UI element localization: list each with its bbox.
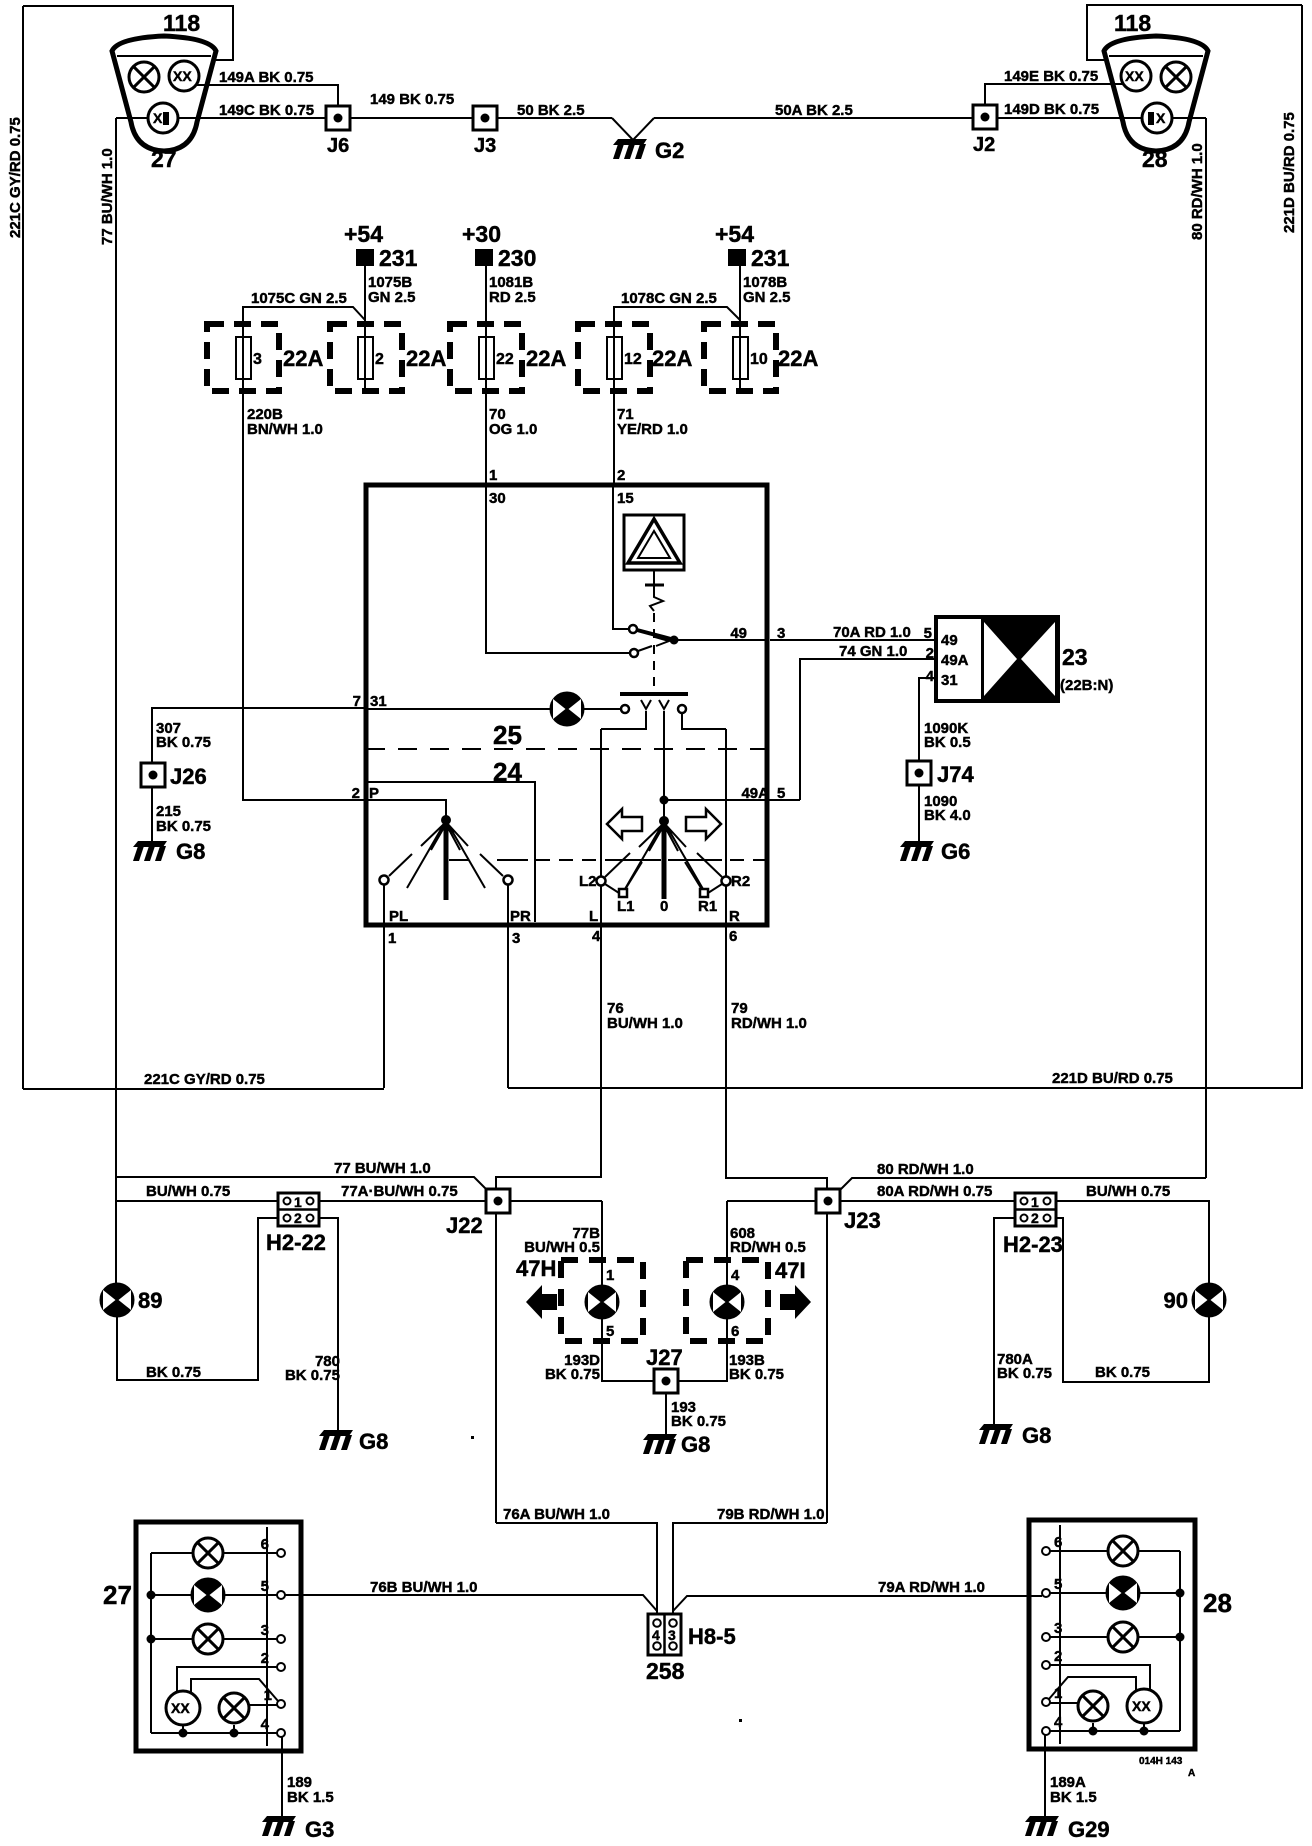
fuse 22/22A box <box>450 324 522 391</box>
arrow left 47H <box>526 1285 557 1319</box>
svg-text:2: 2 <box>375 351 384 368</box>
svg-text:149C BK 0.75: 149C BK 0.75 <box>219 102 314 119</box>
wire X lamp to pin1 comp28 <box>1050 1702 1077 1704</box>
wire 77B BU/WH 0.5 down to lamp 47H <box>601 1201 603 1286</box>
comp28 right bus <box>1179 1551 1181 1731</box>
svg-text:2: 2 <box>261 1650 269 1667</box>
lamp X in cluster 28 <box>1161 62 1191 92</box>
svg-text:2: 2 <box>926 645 934 662</box>
lamp row6 comp28 <box>1108 1536 1138 1566</box>
wire 1075C GN 2.5 tee <box>243 307 365 324</box>
comp28 bus dot row3 <box>1176 1633 1185 1642</box>
svg-text:4: 4 <box>652 1627 660 1643</box>
wire 76 BU/WH 1.0 pin4 down <box>496 925 601 1189</box>
svg-text:L1: L1 <box>617 898 635 915</box>
wire 47H pin5 to J27 <box>602 1318 654 1381</box>
svg-text:2: 2 <box>1054 1648 1062 1665</box>
svg-text:BU/WH 0.75: BU/WH 0.75 <box>1086 1183 1170 1200</box>
hazard symbol box <box>624 515 684 570</box>
wire XX bottom stub <box>182 1725 184 1733</box>
combination switch unit 25/24 box <box>366 485 767 925</box>
flasher 23 bowtie <box>981 617 1058 701</box>
svg-text:RD/WH 0.5: RD/WH 0.5 <box>730 1239 806 1256</box>
svg-text:149D BK 0.75: 149D BK 0.75 <box>1004 101 1099 118</box>
lamp 90 <box>1193 1284 1226 1317</box>
svg-text:G3: G3 <box>305 1817 334 1842</box>
svg-text:49: 49 <box>730 625 747 642</box>
svg-text:77 BU/WH 1.0: 77 BU/WH 1.0 <box>334 1160 431 1177</box>
svg-text:(22B:N): (22B:N) <box>1060 677 1113 694</box>
wire pin2/15 internal <box>613 485 628 629</box>
arrow right 47I <box>780 1285 811 1319</box>
junction J3 <box>473 106 497 130</box>
wire comp28 pin4 to G29 <box>1044 1735 1046 1817</box>
pin 2 circle comp27 <box>277 1663 285 1671</box>
comp28 inner pin rail <box>1059 1525 1061 1744</box>
wire BU/WH 0.75 to H2-22 <box>116 1200 278 1202</box>
svg-text:221D BU/RD 0.75: 221D BU/RD 0.75 <box>1281 112 1298 233</box>
svg-text:89: 89 <box>138 1288 162 1313</box>
pin 1 circle comp27 <box>277 1700 285 1708</box>
svg-text:80 RD/WH 1.0: 80 RD/WH 1.0 <box>877 1161 974 1178</box>
comp28 row6 wires <box>1050 1550 1180 1552</box>
deck contact fork 2 <box>641 700 651 709</box>
wire 221D BU/RD 0.75 bottom horizontal <box>508 1087 1302 1089</box>
svg-text:RD/WH 1.0: RD/WH 1.0 <box>731 1015 807 1032</box>
svg-text:80 RD/WH 1.0: 80 RD/WH 1.0 <box>1189 143 1206 240</box>
svg-text:221D BU/RD 0.75: 221D BU/RD 0.75 <box>1052 1070 1173 1087</box>
PL throw line <box>389 854 412 876</box>
comp28 bus dot row5 <box>1176 1589 1185 1598</box>
pin 2 circle comp28 <box>1042 1661 1050 1669</box>
svg-text:H8-5: H8-5 <box>688 1624 736 1649</box>
svg-text:258: 258 <box>646 1658 685 1684</box>
turn deck left rail <box>600 729 602 925</box>
svg-text:70A RD 1.0: 70A RD 1.0 <box>833 624 911 641</box>
instrument cluster 118 right outline <box>1104 36 1208 151</box>
svg-text:XX: XX <box>1125 68 1144 84</box>
comp27 bus dot row3 <box>147 1635 156 1644</box>
svg-text:BK 0.75: BK 0.75 <box>156 818 211 835</box>
deck contact circle 4 <box>678 705 686 713</box>
comp27 inner pin rail <box>266 1527 268 1746</box>
lamp row3 comp27 <box>193 1624 223 1654</box>
pin 4 circle comp27 <box>277 1729 285 1737</box>
svg-text:BK 0.75: BK 0.75 <box>997 1365 1052 1382</box>
svg-text:1: 1 <box>294 1194 302 1210</box>
svg-text:3: 3 <box>261 1622 269 1639</box>
contact R1 <box>700 889 708 897</box>
hazard contact upper <box>629 625 637 633</box>
wire 49 internal to east edge <box>674 639 767 641</box>
svg-text:2: 2 <box>1031 1210 1039 1226</box>
P wiper pivot dot <box>441 815 451 825</box>
wire comp27 pin4 to G3 <box>281 1737 283 1817</box>
ground G29 <box>1025 1816 1059 1836</box>
lamp 47H dashed box <box>561 1260 643 1341</box>
wire 1081B RD 2.5 <box>485 266 487 324</box>
contact L2 <box>597 877 606 886</box>
svg-text:31: 31 <box>370 693 387 710</box>
wire 76A BU/WH 1.0 to H8-5 <box>496 1523 657 1616</box>
svg-text:74 GN 1.0: 74 GN 1.0 <box>839 643 907 660</box>
svg-text:30: 30 <box>489 490 506 507</box>
ground G8 under J27 <box>643 1434 677 1454</box>
pin 4 circle comp28 <box>1042 1727 1050 1735</box>
svg-text:H2-23: H2-23 <box>1003 1232 1063 1257</box>
svg-text:10: 10 <box>750 351 768 368</box>
svg-text:J26: J26 <box>170 764 207 789</box>
speck bottom <box>739 1719 742 1722</box>
hazard arm stub from lower contact <box>638 646 652 651</box>
wire lamp 90 bottom loop to H2-23 pin2 <box>1056 1218 1209 1382</box>
svg-text:231: 231 <box>751 245 790 271</box>
svg-text:BK 1.5: BK 1.5 <box>287 1789 334 1806</box>
svg-text:+30: +30 <box>462 221 501 247</box>
wire 1078C GN 2.5 tee <box>614 307 740 324</box>
lamp IX in cluster 28 <box>1142 103 1172 133</box>
fuse 12/22A box <box>578 324 650 391</box>
junction J26 <box>141 763 165 787</box>
hazard switch dashed shaft <box>653 613 655 691</box>
wire 149E BK 0.75 <box>985 84 1123 105</box>
svg-text:2: 2 <box>352 785 360 802</box>
fuse 3/22A box <box>207 324 279 391</box>
svg-text:5: 5 <box>606 1323 614 1340</box>
wire 80 RD/WH 1.0 vertical <box>1205 118 1207 1178</box>
lamp 47I <box>711 1286 744 1319</box>
svg-text:OG 1.0: OG 1.0 <box>489 421 537 438</box>
R2 throw line <box>697 853 722 877</box>
wire G2 dip <box>612 118 654 140</box>
turn wiper feed <box>663 800 665 820</box>
dot XX bottom comp28 <box>1140 1727 1149 1736</box>
svg-text:149A BK 0.75: 149A BK 0.75 <box>219 69 314 86</box>
dot X bottom comp28 <box>1089 1727 1098 1736</box>
hazard arm arrowhead <box>655 637 669 646</box>
pin 5 circle comp27 <box>277 1591 285 1599</box>
mech link dashed right <box>730 859 766 861</box>
fuse 10/22A box <box>704 324 776 391</box>
wire 71 YE/RD 1.0 fuse12 to pin 2 <box>613 391 615 485</box>
comp28 row3 wires <box>1050 1636 1180 1638</box>
pin 3 circle comp27 <box>277 1635 285 1643</box>
svg-text:2: 2 <box>617 467 625 484</box>
svg-text:50 BK 2.5: 50 BK 2.5 <box>517 102 585 119</box>
L2 throw line <box>605 853 630 877</box>
svg-text:79B RD/WH 1.0: 79B RD/WH 1.0 <box>717 1506 825 1523</box>
comp27 left bus <box>150 1553 152 1733</box>
svg-text:BK 0.75: BK 0.75 <box>671 1413 726 1430</box>
wire 77A BU/WH 0.75 H2-22 to J22 <box>319 1200 486 1202</box>
hollow arrow left <box>607 809 642 839</box>
flasher unit 23 box <box>936 617 1058 701</box>
wire pin2 to XX lamp comp28 <box>1050 1665 1150 1690</box>
wire fork2 to L rail <box>601 711 646 729</box>
wire 77 BU/WH 1.0 vertical <box>115 118 117 1283</box>
svg-text:77A·BU/WH 0.75: 77A·BU/WH 0.75 <box>341 1183 458 1200</box>
svg-text:4: 4 <box>731 1267 740 1284</box>
svg-text:76A BU/WH 1.0: 76A BU/WH 1.0 <box>503 1506 610 1523</box>
svg-text:25: 25 <box>493 720 522 750</box>
wire 79B RD/WH 1.0 to H8-5 <box>673 1523 827 1616</box>
divider dashed 25/24 <box>366 748 767 750</box>
wire lamp 89 bottom loop to H2-22 pin2 <box>117 1218 278 1380</box>
svg-text:22: 22 <box>496 351 514 368</box>
contact L1 <box>619 889 627 897</box>
junction J27 <box>654 1369 678 1393</box>
pin 5 circle comp28 <box>1042 1589 1050 1597</box>
svg-text:J2: J2 <box>973 134 995 156</box>
wire 149D BK 0.75 <box>997 117 1142 119</box>
wire XX bottom stub comp28 <box>1143 1723 1145 1731</box>
wire J74 to G6 <box>918 785 920 843</box>
svg-text:R1: R1 <box>698 898 717 915</box>
svg-text:A: A <box>1188 1768 1195 1779</box>
lamp X comp27 <box>219 1693 249 1723</box>
svg-text:BK 0.75: BK 0.75 <box>156 734 211 751</box>
svg-text:90: 90 <box>1164 1288 1188 1313</box>
turn wiper stem <box>662 821 667 899</box>
wire 77 BU/WH 1.0 to J22 <box>116 1177 486 1189</box>
link L2-L1 <box>605 884 619 893</box>
PR throw line <box>480 854 503 876</box>
svg-text:22A: 22A <box>526 346 566 371</box>
connector H8-5 <box>648 1614 681 1655</box>
wire 49A internal to east edge <box>664 799 767 801</box>
wire top-right hook to cluster 28 <box>1087 5 1302 60</box>
pin 6 circle comp28 <box>1042 1547 1050 1555</box>
hazard switch stem <box>653 570 655 585</box>
svg-text:1: 1 <box>606 1267 614 1284</box>
lamp 47I dashed box <box>686 1260 768 1341</box>
hazard arm pivot dot <box>670 636 679 645</box>
wire 70 OG 1.0 fuse22 to pin 1 <box>485 391 487 485</box>
contact R2 <box>722 877 731 886</box>
P wiper stem <box>444 820 449 900</box>
svg-text:L2: L2 <box>579 873 597 890</box>
svg-text:3: 3 <box>1054 1620 1062 1637</box>
svg-text:4: 4 <box>261 1716 270 1733</box>
hazard contact lower <box>630 649 638 657</box>
wire J27 to G8 <box>665 1393 667 1436</box>
svg-text:G8: G8 <box>359 1429 388 1454</box>
svg-text:6: 6 <box>261 1536 269 1553</box>
wire pin1/30 internal <box>486 485 630 653</box>
wire J23 west to 608 riser <box>727 1200 816 1202</box>
wire 76A BU/WH 1.0 J22 down <box>495 1213 497 1523</box>
svg-text:6: 6 <box>731 1323 739 1340</box>
svg-text:49A: 49A <box>941 652 969 669</box>
ground G6 <box>900 841 934 861</box>
wire 149 BK 0.75 <box>350 117 473 119</box>
svg-text:22A: 22A <box>652 346 692 371</box>
ground G2 <box>613 139 647 159</box>
pin 1 circle comp28 <box>1042 1698 1050 1706</box>
wire pin1 hook comp28 <box>1049 1677 1136 1699</box>
svg-text:R2: R2 <box>731 873 750 890</box>
svg-text:231: 231 <box>379 245 418 271</box>
wire 1078B GN 2.5 <box>739 266 741 324</box>
svg-text:47I: 47I <box>775 1258 806 1283</box>
svg-text:J74: J74 <box>937 762 974 787</box>
pin 3 circle comp28 <box>1042 1633 1050 1641</box>
wire BU/WH 0.75 H2-23 to lamp 90 <box>1056 1201 1209 1284</box>
svg-text:H2-22: H2-22 <box>266 1230 326 1255</box>
ground G3 <box>262 1816 296 1836</box>
svg-text:3: 3 <box>512 930 520 947</box>
svg-text:BK 0.75: BK 0.75 <box>285 1367 340 1384</box>
wire J26 to G8 <box>151 787 153 843</box>
svg-text:221C GY/RD 0.75: 221C GY/RD 0.75 <box>7 117 24 238</box>
svg-text:BK 0.5: BK 0.5 <box>924 734 971 751</box>
svg-text:6: 6 <box>1054 1534 1062 1551</box>
wire pin1 hook comp27 <box>191 1679 278 1701</box>
svg-text:76B BU/WH 1.0: 76B BU/WH 1.0 <box>370 1579 478 1596</box>
R1 throw line <box>685 862 701 888</box>
wire 149A BK 0.75 <box>196 85 338 106</box>
svg-text:G8: G8 <box>1022 1423 1051 1448</box>
comp28 row5 wires <box>1050 1592 1180 1594</box>
svg-text:GN 2.5: GN 2.5 <box>743 289 791 306</box>
svg-text:1: 1 <box>388 930 396 947</box>
wire X lamp to pin1 comp27 <box>250 1704 277 1706</box>
svg-text:J3: J3 <box>474 135 496 157</box>
svg-text:+54: +54 <box>344 221 383 247</box>
svg-text:5: 5 <box>924 625 932 642</box>
lamp 89 <box>101 1284 134 1317</box>
wire 79A RD/WH 1.0 H8-5 to comp28 <box>673 1596 1042 1611</box>
lamp row3 comp28 <box>1108 1622 1138 1652</box>
hazard telltale lamp <box>551 693 584 726</box>
svg-text:6: 6 <box>729 928 737 945</box>
wire 50A BK 2.5 <box>654 117 973 119</box>
svg-text:G8: G8 <box>681 1432 710 1457</box>
svg-text:3: 3 <box>253 351 262 368</box>
wire 47I pin6 to J27 <box>679 1318 727 1381</box>
pin 6 circle comp27 <box>277 1549 285 1557</box>
svg-text:P: P <box>369 785 379 802</box>
junction J74 <box>907 761 931 785</box>
svg-text:47H: 47H <box>516 1256 556 1281</box>
svg-text:BU/WH 0.5: BU/WH 0.5 <box>524 1239 600 1256</box>
svg-text:3: 3 <box>668 1627 676 1643</box>
svg-text:BK 0.75: BK 0.75 <box>146 1364 201 1381</box>
junction J22 <box>486 1189 510 1213</box>
wire 79B RD/WH 1.0 J23 down <box>826 1213 828 1523</box>
contact PR <box>504 876 513 885</box>
svg-text:31: 31 <box>941 672 958 689</box>
svg-text:27: 27 <box>151 146 177 172</box>
hazard switch arm <box>637 630 671 639</box>
svg-text:G8: G8 <box>176 839 205 864</box>
wire 1075B GN 2.5 <box>364 266 366 324</box>
svg-text:77 BU/WH 1.0: 77 BU/WH 1.0 <box>99 148 116 245</box>
wire top-left hook to cluster 27 <box>23 6 233 60</box>
wire 80 stub from lamp IX <box>1172 117 1206 119</box>
hazard switch spring zigzag <box>650 585 663 611</box>
svg-text:1: 1 <box>489 467 497 484</box>
svg-text:5: 5 <box>261 1578 269 1595</box>
wire 608 RD/WH 0.5 down to lamp 47I <box>726 1201 728 1286</box>
fuse 2/22A box <box>330 324 402 391</box>
comp27 row6 wires <box>151 1552 277 1554</box>
svg-text:X: X <box>153 110 163 126</box>
comp27 bottom rail <box>151 1732 277 1734</box>
svg-text:L: L <box>589 908 598 925</box>
svg-text:J22: J22 <box>446 1213 483 1238</box>
dot X bottom <box>230 1729 239 1738</box>
svg-text:X: X <box>1156 110 1166 126</box>
svg-text:PR: PR <box>510 908 531 925</box>
hazard deck bar <box>620 692 688 696</box>
lamp XX comp28 <box>1127 1689 1161 1723</box>
hazard triangle inner <box>638 531 670 558</box>
wire lamp to deck contact <box>583 708 621 710</box>
svg-text:118: 118 <box>1114 10 1151 36</box>
rear lamp unit 27 box <box>136 1522 301 1751</box>
connector H2-22 <box>278 1193 319 1226</box>
junction J6 <box>326 106 350 130</box>
wire 79 RD/WH 1.0 pin6 down <box>726 925 827 1189</box>
contact PL <box>380 876 389 885</box>
svg-text:1078C GN 2.5: 1078C GN 2.5 <box>621 290 717 307</box>
junction J2 <box>973 105 997 129</box>
svg-text:J27: J27 <box>646 1345 683 1370</box>
L1 throw line <box>626 862 642 888</box>
comp27 row3 wires <box>151 1638 277 1640</box>
svg-text:1075C GN 2.5: 1075C GN 2.5 <box>251 290 347 307</box>
svg-text:G2: G2 <box>655 138 684 163</box>
comp27 row5 wires <box>151 1594 277 1596</box>
deck contact fork 3 <box>659 700 669 709</box>
wire 77 stub from lamp XI <box>116 117 148 119</box>
svg-text:27: 27 <box>103 1580 132 1610</box>
svg-text:50A BK 2.5: 50A BK 2.5 <box>775 102 853 119</box>
svg-text:G29: G29 <box>1068 1817 1110 1842</box>
svg-text:BK 0.75: BK 0.75 <box>729 1366 784 1383</box>
mech link dashed to turn deck <box>536 859 600 861</box>
svg-text:RD 2.5: RD 2.5 <box>489 289 536 306</box>
svg-text:80A RD/WH 0.75: 80A RD/WH 0.75 <box>877 1183 992 1200</box>
svg-text:XX: XX <box>171 1700 190 1716</box>
instrument cluster 118 left outline <box>112 36 216 151</box>
hollow arrow right <box>686 809 721 839</box>
wire 80 RD/WH 1.0 to J23 <box>840 1178 1206 1190</box>
svg-text:5: 5 <box>1054 1576 1062 1593</box>
svg-text:XX: XX <box>173 68 192 84</box>
wire H2-23 pin2 west to G8 <box>994 1218 1015 1426</box>
wire H2-22 pin2 east to G8 <box>319 1218 338 1432</box>
lamp X in cluster 27 <box>129 62 159 92</box>
svg-text:49: 49 <box>941 632 958 649</box>
svg-text:014H 143: 014H 143 <box>1139 1756 1183 1767</box>
lamp XX in cluster 28 <box>1121 61 1151 91</box>
wire 221D BU/RD 0.75 right outer vertical <box>1301 5 1303 1089</box>
P wiper fan <box>407 822 485 888</box>
svg-text:49A: 49A <box>741 785 769 802</box>
connector H2-23 <box>1015 1193 1056 1226</box>
svg-text:+54: +54 <box>715 221 754 247</box>
lamp XX comp27 <box>166 1691 200 1725</box>
svg-text:118: 118 <box>163 10 200 36</box>
svg-text:BU/WH 0.75: BU/WH 0.75 <box>146 1183 230 1200</box>
sub-box 24 outline <box>368 782 535 922</box>
svg-text:BN/WH 1.0: BN/WH 1.0 <box>247 421 323 438</box>
wire fork3 common down <box>663 711 665 800</box>
wire 50 BK 2.5 <box>497 117 612 119</box>
svg-text:XX: XX <box>1132 1698 1151 1714</box>
